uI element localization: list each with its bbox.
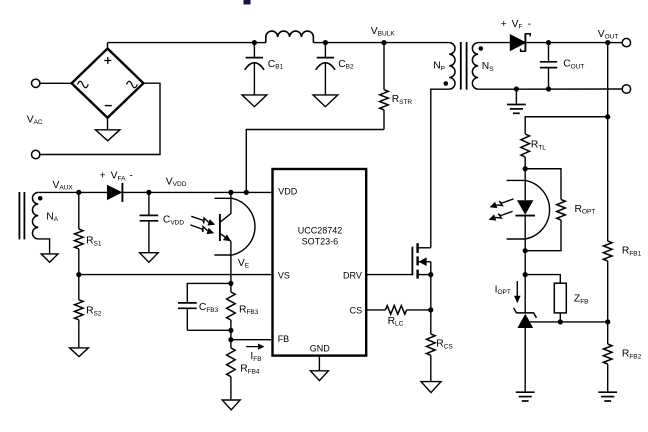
svg-text:VS: VS: [278, 271, 290, 281]
bridge minus mark: [105, 105, 112, 107]
svg-text:IOPT: IOPT: [495, 284, 511, 296]
ground below CVDD: [140, 253, 159, 263]
ground below GND pin: [310, 371, 328, 381]
svg-text:ROPT: ROPT: [575, 204, 596, 216]
node VBULK: [381, 40, 386, 45]
wire inductor to CB2: [313, 42, 325, 44]
node source: [428, 272, 433, 277]
transistor Q1 channel: [416, 243, 418, 253]
bridge rectifier diamond: [72, 49, 144, 118]
svg-text:DRV: DRV: [343, 271, 362, 281]
node LED cathode: [523, 248, 528, 253]
transistor Q1 gate bar: [411, 247, 413, 276]
node RTL branch: [605, 114, 610, 119]
opto light arrows receive: [191, 216, 208, 223]
wire RTL to LED node: [524, 157, 526, 169]
capacitor COUT: [548, 43, 550, 62]
wire to ZFB node: [524, 251, 526, 275]
node VS-RFB3: [228, 281, 233, 286]
phototransistor emitter: [220, 233, 231, 241]
svg-text:CB1: CB1: [268, 59, 284, 71]
wire CVDD node to IC: [149, 191, 273, 193]
terminal VAC bottom: [32, 150, 40, 158]
aux phase dot: [38, 196, 43, 201]
svg-text:RLC: RLC: [388, 316, 404, 328]
wire emitter down: [230, 241, 232, 283]
node ZFB branch: [523, 272, 528, 277]
phototransistor base bar: [219, 214, 221, 241]
wire LED anode: [524, 169, 526, 201]
capacitor CB2: [317, 57, 334, 59]
node CB2 top: [323, 40, 328, 45]
transistor Q1 source: [418, 274, 431, 276]
wire VOUT rail down: [607, 43, 609, 241]
wire ZFB branch: [525, 275, 560, 284]
LED light arrows: [496, 199, 513, 206]
svg-text:VBULK: VBULK: [371, 26, 396, 38]
wire COUT node to VOUT node: [549, 42, 608, 44]
wire RTL branch: [525, 117, 608, 134]
svg-text:RS1: RS1: [86, 236, 102, 248]
svg-text:NP: NP: [433, 61, 445, 73]
svg-text:CFB3: CFB3: [199, 302, 219, 314]
bridge AC tilde right: [127, 81, 138, 88]
phototransistor collector: [220, 192, 231, 222]
resistor RSTR: [383, 43, 385, 90]
svg-text:-: -: [130, 171, 133, 182]
svg-text:RTL: RTL: [531, 140, 546, 152]
svg-text:VAC: VAC: [27, 114, 43, 126]
wire primary bottom to drain: [431, 89, 449, 248]
bridge plus mark: [104, 57, 111, 64]
resistor RTL: [521, 134, 530, 157]
svg-text:+: +: [501, 19, 507, 30]
node CS: [428, 307, 433, 312]
svg-text:VFA: VFA: [111, 171, 126, 183]
wire node to RFB2: [607, 322, 609, 344]
resistor RS2: [78, 275, 80, 300]
wire RFB3 to FB node: [230, 330, 232, 339]
aux core: [18, 192, 20, 239]
wire bridge bottom vertex down: [107, 118, 109, 130]
optocoupler LED enclosure: [507, 180, 550, 239]
svg-text:VAUX: VAUX: [53, 180, 74, 192]
svg-text:RFB1: RFB1: [622, 246, 642, 258]
wire top rail bridge to CB1: [108, 42, 255, 44]
ground below RS2: [70, 348, 89, 357]
title fragment (cropped text at top): [244, 0, 251, 5]
svg-text:NS: NS: [482, 61, 494, 73]
wire to earth ground: [515, 89, 517, 105]
svg-text:RFB4: RFB4: [240, 364, 260, 376]
svg-text:VF: VF: [512, 19, 523, 31]
wire secondary bottom rail: [478, 88, 622, 90]
wire aux bottom: [38, 239, 49, 254]
transistor Q1 drain: [418, 247, 431, 249]
resistor ROPT: [557, 200, 566, 221]
node FB pin: [228, 337, 233, 342]
node CVDD top: [146, 190, 151, 195]
svg-text:NA: NA: [46, 211, 58, 223]
wire VOUT node to terminal: [608, 42, 623, 44]
bridge AC tilde left: [78, 81, 89, 88]
resistor RCS: [427, 334, 436, 355]
svg-text:+: +: [100, 171, 106, 182]
primary phase dot: [444, 81, 449, 86]
ground below RCS: [421, 382, 441, 393]
svg-text:VVDD: VVDD: [166, 176, 187, 188]
resistor RFB1: [603, 241, 612, 261]
aux winding NA: [32, 192, 38, 239]
diode VF (schottky): [510, 35, 525, 51]
wire VBULK to primary: [384, 42, 449, 44]
diode VFA: [107, 185, 122, 200]
resistor RFB3: [230, 283, 232, 292]
terminal VOUT bottom: [622, 85, 630, 93]
filter inductor: [266, 31, 314, 43]
wire bridge right vertex loop: [40, 83, 160, 154]
wire RFB2 to ground: [607, 364, 609, 392]
capacitor CVDD: [148, 192, 150, 215]
wire TL431 to ground: [524, 328, 526, 392]
capacitor CFB3: [178, 303, 197, 308]
node secondary ground: [514, 86, 519, 91]
svg-text:CB2: CB2: [338, 59, 354, 71]
resistor RFB4: [230, 340, 232, 348]
node RS1 top: [76, 190, 81, 195]
svg-text:VE: VE: [238, 258, 250, 270]
svg-text:GND: GND: [310, 344, 331, 354]
svg-text:ZFB: ZFB: [574, 294, 589, 306]
svg-text:COUT: COUT: [563, 59, 584, 71]
node VS divider: [76, 272, 81, 277]
svg-text:RCS: RCS: [436, 339, 453, 351]
node COUT top: [546, 40, 551, 45]
wire CFB3 top: [187, 283, 231, 303]
node RFB3 bottom: [228, 328, 233, 333]
wire VS to IC: [79, 274, 273, 276]
wire ROPT branch: [525, 169, 561, 200]
svg-text:UCC28742: UCC28742: [298, 226, 343, 236]
wire LED cathode: [524, 216, 526, 251]
wire DRV to gate: [366, 274, 412, 276]
resistor RLC: [385, 306, 406, 315]
wire RCS to ground: [430, 355, 432, 381]
shunt regulator TL431: [514, 308, 537, 318]
wire diode to COUT node: [525, 42, 548, 44]
wire diode to CVDD node: [122, 191, 148, 193]
node FB divider: [605, 319, 610, 324]
wire CS to RLC: [366, 309, 385, 311]
svg-text:VOUT: VOUT: [598, 29, 619, 41]
ground below aux: [41, 254, 58, 262]
terminal VAC top: [32, 79, 40, 87]
impedance ZFB: [554, 283, 566, 313]
transformer secondary winding NS: [472, 43, 478, 90]
node VOUT: [605, 40, 610, 45]
wire secondary top to diode: [478, 42, 510, 44]
svg-text:RFB3: RFB3: [239, 304, 259, 316]
wire CFB3 bottom: [187, 329, 231, 331]
IOPT current arrow: [516, 281, 518, 297]
wire RLC to source node: [407, 309, 431, 311]
wire VVDD rail: [38, 191, 107, 193]
node RTL bottom: [523, 166, 528, 171]
wire CB1 to inductor: [254, 42, 265, 44]
optocoupler LED: [517, 200, 533, 215]
transformer core: [460, 42, 462, 90]
GND pin wire: [318, 356, 320, 371]
ground below CB2: [313, 95, 338, 107]
svg-text:RSTR: RSTR: [392, 94, 413, 106]
wire ROPT bottom: [525, 220, 561, 251]
earth ground RFB2: [598, 391, 617, 393]
ground below CB1: [242, 95, 267, 107]
ground below bridge: [96, 130, 120, 141]
svg-text:RFB2: RFB2: [622, 349, 642, 361]
earth ground secondary: [507, 104, 526, 106]
wire VAC top to bridge: [40, 82, 72, 84]
secondary phase dot: [479, 46, 484, 51]
wire source down: [430, 275, 432, 334]
resistor RS1: [78, 192, 80, 229]
ground below RFB4: [222, 400, 240, 410]
optocoupler transistor enclosure: [214, 198, 255, 255]
node COUT bottom: [546, 86, 551, 91]
svg-text:SOT23-6: SOT23-6: [302, 237, 339, 247]
svg-text:CVDD: CVDD: [163, 215, 184, 227]
wire TL431 ref to FB rail: [530, 321, 608, 323]
svg-text:FB: FB: [278, 334, 290, 344]
earth ground TL431: [516, 391, 535, 393]
op-amp U1 UCC28742 box: [273, 169, 367, 356]
svg-text:-: -: [528, 19, 531, 30]
capacitor CB1: [246, 57, 263, 59]
wire RFB1 to node: [607, 261, 609, 322]
wire CB2 to VBULK node: [325, 42, 384, 44]
node ZFB bottom: [558, 319, 563, 324]
wire CB1 stem top: [253, 43, 255, 58]
node CB1 top: [252, 40, 257, 45]
resistor RFB2: [603, 344, 612, 364]
svg-text:CS: CS: [350, 306, 363, 316]
svg-text:RS2: RS2: [86, 306, 102, 318]
node RSTR branch: [244, 190, 249, 195]
transformer primary winding NP: [449, 43, 455, 90]
wire LED to TL431: [524, 275, 526, 314]
node opto collector: [228, 190, 233, 195]
svg-text:VDD: VDD: [278, 186, 298, 196]
IFB current arrow: [246, 346, 259, 348]
terminal VOUT top: [622, 38, 630, 46]
wire RSTR to VDD rail: [246, 130, 384, 193]
transistor Q1 body arrow: [418, 261, 431, 263]
svg-text:IFB: IFB: [250, 351, 261, 363]
wire FB to IC: [231, 339, 273, 341]
wire CB2 stem top: [324, 43, 326, 58]
wire ZFB bottom: [559, 313, 561, 322]
wire bridge top vertex to top rail: [107, 43, 109, 49]
